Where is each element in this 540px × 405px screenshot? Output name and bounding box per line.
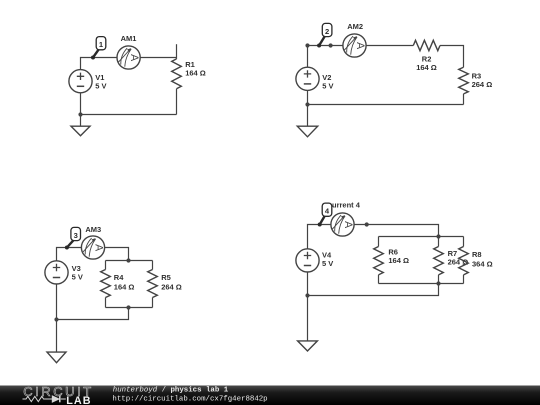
wire parallel top rail 3 bbox=[106, 260, 153, 262]
svg-text:A: A bbox=[354, 42, 366, 50]
wire R4 top lead bbox=[105, 261, 107, 270]
wire R3 bottom lead bbox=[463, 94, 465, 105]
svg-text:V4: V4 bbox=[322, 250, 332, 259]
voltage source V3 (5 V) bbox=[45, 261, 68, 284]
ground GND3 bbox=[47, 352, 66, 363]
svg-text:R4: R4 bbox=[114, 273, 124, 282]
wire R8 top lead bbox=[463, 237, 465, 247]
junction dot wire joint after AM4 bbox=[365, 222, 369, 226]
svg-text:164 Ω: 164 Ω bbox=[388, 256, 409, 265]
wire AM3 to parallel rail bbox=[105, 248, 129, 261]
label R6 value bbox=[388, 248, 409, 266]
junction dot top rail junction 3 bbox=[126, 258, 130, 262]
ammeter AM4 bbox=[331, 213, 354, 236]
wire R7 bottom lead bbox=[438, 275, 440, 284]
wire parallel bottom rail 3 bbox=[106, 307, 153, 309]
CircuitLab logo squiggle (resistor + diode) bbox=[23, 396, 66, 403]
node flag 2 box bbox=[322, 23, 332, 36]
node flag 3 junction dot bbox=[65, 246, 69, 250]
svg-text:A: A bbox=[128, 54, 140, 62]
node flag 4 junction dot bbox=[318, 223, 322, 227]
resistor R8 bbox=[459, 247, 469, 275]
wire V4 top to AM4 bbox=[308, 225, 331, 249]
wire rail to V4 bottom bbox=[308, 284, 439, 296]
svg-text:R5: R5 bbox=[161, 273, 171, 282]
junction dot wire joint before AM2 bbox=[329, 43, 333, 47]
svg-text:264 Ω: 264 Ω bbox=[472, 80, 493, 89]
svg-text:AM2: AM2 bbox=[347, 22, 363, 31]
svg-text:264 Ω: 264 Ω bbox=[161, 283, 182, 292]
wire AM1 to R1 bbox=[140, 57, 176, 59]
wire R8 bottom lead bbox=[463, 275, 465, 284]
junction dot V3 return junction bbox=[54, 317, 58, 321]
svg-text:LAB: LAB bbox=[66, 395, 91, 405]
junction dot V1/ground/return junction bbox=[78, 112, 82, 116]
label R3 value bbox=[472, 72, 493, 90]
resistor R1 bbox=[172, 59, 182, 89]
wire V3 bottom to ground bbox=[56, 284, 58, 352]
wire rail to V3 bottom bbox=[57, 308, 129, 320]
wire bottom return wire 2 bbox=[308, 104, 464, 106]
label V2 value bbox=[322, 73, 333, 91]
wire AM4 to parallel rail bbox=[354, 225, 438, 237]
junction dot bottom rail junction 3 bbox=[126, 305, 130, 309]
label R7 value bbox=[448, 249, 469, 267]
svg-text:2: 2 bbox=[325, 27, 329, 36]
node flag 4 box bbox=[322, 203, 332, 216]
wire R4 bottom lead bbox=[105, 298, 107, 308]
resistor R5 bbox=[148, 270, 158, 298]
svg-text:5 V: 5 V bbox=[322, 259, 333, 268]
label R5 value bbox=[161, 273, 182, 292]
ammeter AM2 bbox=[343, 34, 366, 57]
label V1 value bbox=[95, 73, 106, 91]
wire V2 top to AM2 bbox=[308, 46, 343, 68]
svg-text:164 Ω: 164 Ω bbox=[185, 68, 206, 77]
wire V1 bottom to ground bbox=[80, 93, 82, 126]
wire AM2 to R2 bbox=[366, 45, 413, 47]
svg-text:5 V: 5 V bbox=[72, 272, 83, 281]
node flag 4 pointer bbox=[320, 216, 325, 224]
wire parallel top rail 4 bbox=[379, 236, 464, 238]
junction dot V4 return junction bbox=[305, 293, 309, 297]
wire R6 top lead bbox=[378, 237, 380, 247]
wire parallel bottom rail 4 bbox=[379, 283, 464, 285]
svg-text:3: 3 bbox=[74, 231, 78, 240]
svg-text:164 Ω: 164 Ω bbox=[416, 63, 437, 72]
label V3 value bbox=[72, 264, 83, 282]
ammeter AM1 bbox=[117, 46, 140, 69]
resistor R3 bbox=[459, 67, 469, 94]
svg-text:5 V: 5 V bbox=[322, 81, 333, 90]
label R4 value bbox=[114, 273, 135, 292]
ground GND1 bbox=[71, 126, 90, 136]
svg-text:A: A bbox=[93, 244, 105, 252]
resistor R4 bbox=[101, 270, 111, 298]
node flag 3 pointer bbox=[67, 240, 73, 247]
wire V1 top to AM1 bbox=[81, 58, 118, 70]
svg-text:5 V: 5 V bbox=[95, 81, 106, 90]
ammeter AM3 bbox=[81, 236, 104, 259]
resistor R7 bbox=[434, 247, 444, 275]
label R2 value bbox=[416, 54, 437, 72]
node flag 1 box bbox=[96, 37, 106, 50]
svg-text:AM1: AM1 bbox=[121, 34, 137, 43]
label V4 value bbox=[322, 250, 333, 268]
svg-text:364 Ω: 364 Ω bbox=[472, 260, 493, 269]
svg-text:164 Ω: 164 Ω bbox=[114, 283, 135, 292]
junction dot corner above V2 bbox=[305, 43, 309, 47]
footer bar bbox=[0, 386, 540, 405]
wire bottom return wire 1 bbox=[81, 114, 177, 116]
svg-text:R8: R8 bbox=[472, 250, 482, 259]
node flag 2 pointer bbox=[319, 36, 325, 45]
svg-text:hunterboyd / physics lab 1: hunterboyd / physics lab 1 bbox=[113, 386, 229, 394]
wire R2 to R3 bbox=[440, 46, 464, 68]
svg-text:urrent 4: urrent 4 bbox=[332, 201, 361, 210]
voltage source V4 (5 V) bbox=[296, 249, 319, 272]
svg-text:http://circuitlab.com/cx7fg4er: http://circuitlab.com/cx7fg4er8842p bbox=[112, 396, 267, 404]
ground GND2 bbox=[297, 126, 317, 137]
label R8 value bbox=[472, 250, 493, 269]
wire V3 top to AM3 bbox=[57, 248, 82, 261]
voltage source V1 (5 V) bbox=[69, 70, 92, 93]
node flag 3 box bbox=[71, 227, 81, 240]
node flag 1 pointer bbox=[93, 50, 99, 58]
wire R5 top lead bbox=[152, 261, 154, 270]
wire R6 bottom lead bbox=[378, 275, 380, 284]
wire R1 bottom lead bbox=[176, 89, 178, 115]
wire R7 top lead bbox=[438, 237, 440, 247]
wire V4 bottom to ground bbox=[307, 272, 309, 341]
voltage source V2 (5 V) bbox=[296, 67, 319, 90]
junction dot V2/ground/return junction bbox=[305, 102, 309, 106]
resistor R2 bbox=[413, 40, 440, 50]
svg-text:A: A bbox=[342, 221, 354, 229]
node flag 1 junction dot bbox=[91, 56, 95, 60]
node flag 2 junction dot bbox=[317, 44, 321, 48]
ground GND4 bbox=[298, 341, 318, 351]
junction dot bottom rail junction 4 bbox=[436, 281, 440, 285]
label R1 value bbox=[185, 60, 206, 78]
wire R5 bottom lead bbox=[152, 298, 154, 308]
resistor R6 bbox=[374, 247, 384, 275]
wire V2 bottom to ground bbox=[307, 90, 309, 126]
wire R1 top lead bbox=[176, 44, 178, 59]
junction dot top rail junction 4 bbox=[436, 234, 440, 238]
svg-text:AM3: AM3 bbox=[85, 225, 101, 234]
